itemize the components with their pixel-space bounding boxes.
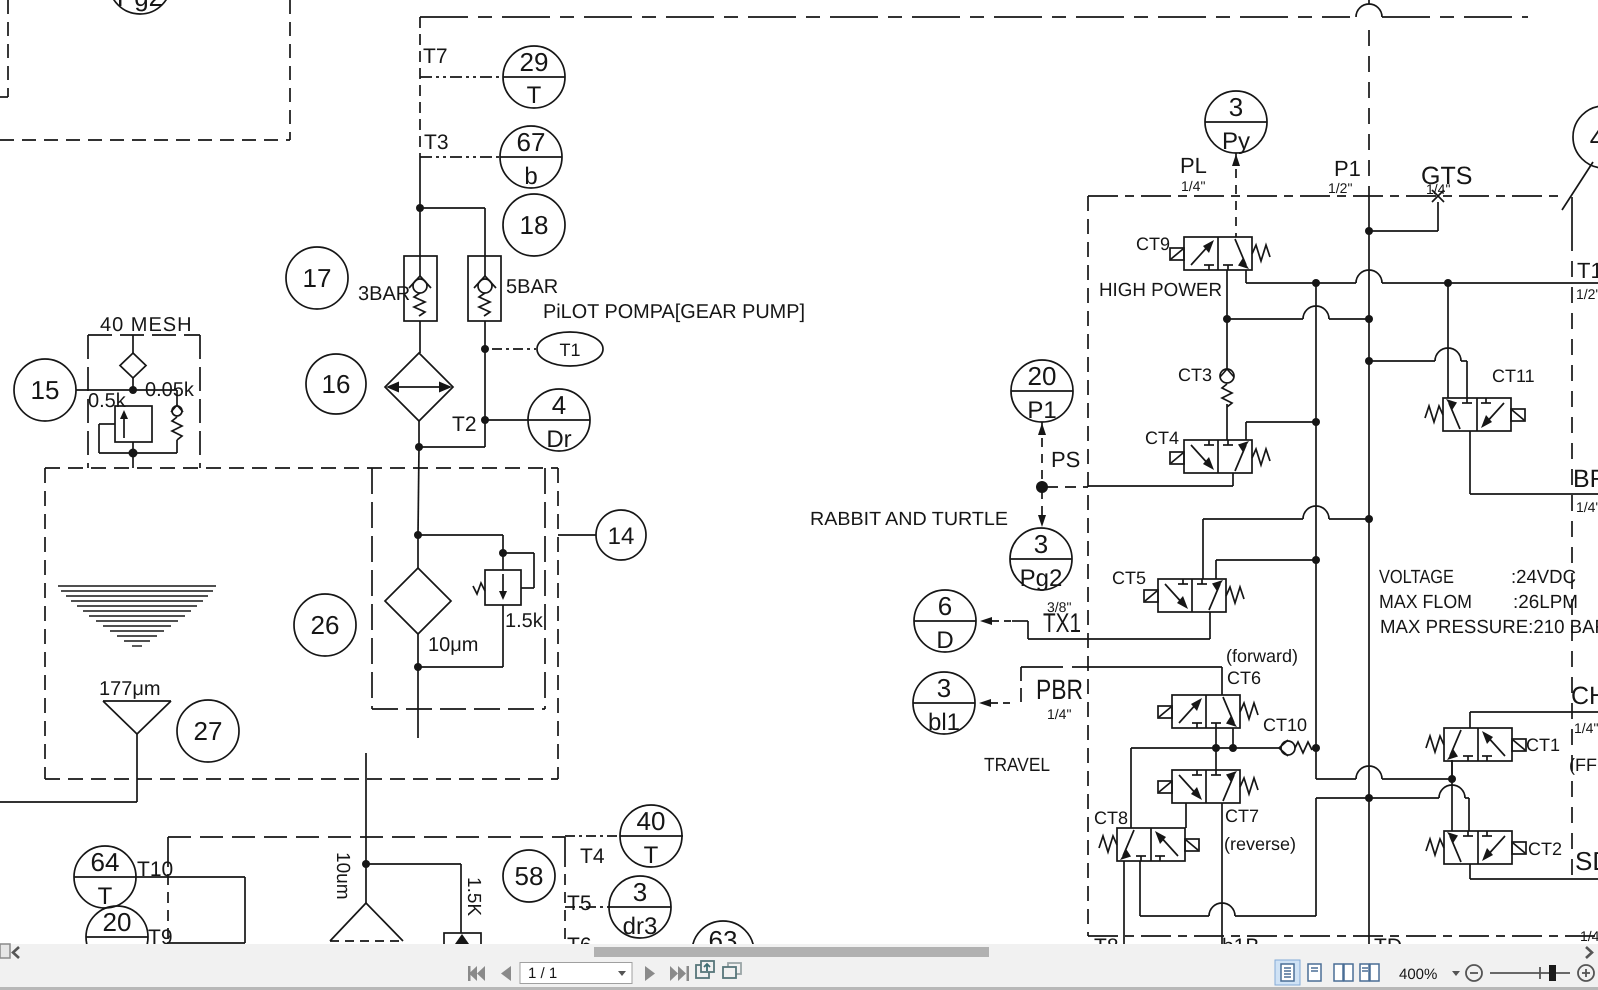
svg-text:CT5: CT5 [1112, 568, 1146, 588]
svg-text:1/2": 1/2" [1576, 286, 1598, 302]
svg-text:Dr: Dr [546, 426, 571, 453]
svg-text:20: 20 [103, 907, 132, 937]
svg-text:D: D [936, 627, 953, 654]
svg-text:(reverse): (reverse) [1224, 834, 1296, 854]
svg-text:58: 58 [515, 861, 544, 891]
svg-text:CT3: CT3 [1178, 365, 1212, 385]
svg-text::26LPM: :26LPM [1513, 592, 1578, 613]
svg-text:3: 3 [633, 877, 647, 907]
svg-text::24VDC: :24VDC [1511, 567, 1576, 588]
svg-text:bl1: bl1 [928, 709, 960, 736]
svg-text:1/4": 1/4" [1047, 706, 1071, 722]
svg-text:RABBIT AND TURTLE: RABBIT AND TURTLE [810, 509, 1008, 530]
svg-text:1/4": 1/4" [1426, 181, 1450, 197]
svg-text:6: 6 [938, 591, 952, 621]
svg-text:b: b [524, 163, 537, 190]
svg-text:CT4: CT4 [1145, 428, 1179, 448]
svg-text:4: 4 [1590, 123, 1598, 153]
svg-text:T3: T3 [424, 131, 449, 154]
svg-text:1/4: 1/4 [1580, 928, 1598, 944]
svg-text:HIGH POWER: HIGH POWER [1099, 280, 1222, 301]
svg-text:14: 14 [608, 523, 635, 550]
svg-text:PL: PL [1180, 153, 1207, 178]
svg-text:T1: T1 [559, 340, 580, 360]
svg-text:1.5k: 1.5k [505, 610, 544, 632]
svg-text:TX1: TX1 [1043, 608, 1081, 638]
svg-text:20: 20 [1028, 361, 1057, 391]
svg-text:PiLOT POMPA[GEAR PUMP]: PiLOT POMPA[GEAR PUMP] [543, 301, 805, 323]
svg-text:3BAR: 3BAR [358, 283, 410, 305]
svg-text:T1: T1 [1577, 258, 1598, 283]
svg-text:1/2": 1/2" [1328, 180, 1352, 196]
svg-text:CT9: CT9 [1136, 234, 1170, 254]
svg-text:64: 64 [91, 847, 120, 877]
svg-text:dr3: dr3 [623, 913, 658, 940]
svg-text:40: 40 [637, 806, 666, 836]
svg-text:MAX PRESSURE:210 BAR: MAX PRESSURE:210 BAR [1380, 617, 1598, 638]
svg-text:T7: T7 [423, 45, 448, 68]
svg-text:400%: 400% [1399, 966, 1437, 983]
svg-text:PS: PS [1051, 447, 1080, 472]
svg-text:17: 17 [303, 263, 332, 293]
svg-text:40 MESH: 40 MESH [100, 314, 193, 336]
svg-text:27: 27 [194, 716, 223, 746]
svg-text:5BAR: 5BAR [506, 276, 558, 298]
svg-text:PBR: PBR [1036, 674, 1083, 705]
svg-text:29: 29 [520, 47, 549, 77]
svg-text:3: 3 [1034, 529, 1048, 559]
svg-text:TRAVEL: TRAVEL [984, 755, 1050, 776]
svg-text:CT8: CT8 [1094, 808, 1128, 828]
svg-text:T: T [527, 82, 542, 109]
svg-text:0.5k: 0.5k [88, 390, 127, 412]
svg-text:T2: T2 [452, 413, 477, 436]
svg-text:Pg2: Pg2 [1020, 565, 1063, 592]
svg-text:T: T [644, 842, 659, 869]
svg-text:VOLTAGE: VOLTAGE [1379, 567, 1454, 588]
svg-text:P1: P1 [1334, 156, 1361, 181]
svg-text:SD: SD [1575, 846, 1598, 876]
svg-text:BR: BR [1573, 465, 1598, 493]
svg-text:P1: P1 [1027, 397, 1056, 424]
svg-text:1 / 1: 1 / 1 [528, 965, 557, 982]
svg-text:3: 3 [937, 673, 951, 703]
svg-text:4: 4 [552, 390, 566, 420]
svg-text:Py: Py [1222, 128, 1250, 155]
svg-text:18: 18 [520, 210, 549, 240]
svg-text:10μm: 10μm [428, 634, 478, 656]
svg-text:CT11: CT11 [1492, 366, 1535, 386]
svg-text:CT10: CT10 [1263, 715, 1307, 735]
svg-text:T5: T5 [567, 892, 592, 915]
svg-text:67: 67 [517, 127, 546, 157]
svg-text:15: 15 [31, 375, 60, 405]
svg-text:CH: CH [1571, 682, 1598, 710]
svg-text:1.5K: 1.5K [463, 877, 484, 916]
svg-text:CT6: CT6 [1227, 668, 1261, 688]
svg-text:177μm: 177μm [99, 678, 161, 700]
svg-text:CT1: CT1 [1526, 735, 1560, 755]
svg-text:CT7: CT7 [1225, 806, 1259, 826]
svg-text:26: 26 [311, 610, 340, 640]
svg-text:16: 16 [322, 369, 351, 399]
svg-text:CT2: CT2 [1528, 839, 1562, 859]
svg-text:(forward): (forward) [1226, 646, 1298, 666]
svg-text:1/4": 1/4" [1181, 178, 1205, 194]
svg-text:1/4": 1/4" [1574, 720, 1598, 736]
svg-text:1/4": 1/4" [1576, 499, 1598, 515]
svg-text:3: 3 [1229, 92, 1243, 122]
svg-text:10um: 10um [332, 852, 353, 900]
svg-text:T4: T4 [580, 845, 605, 868]
svg-text:(FF: (FF [1569, 755, 1597, 775]
svg-text:Pg2: Pg2 [117, 0, 163, 12]
svg-text:MAX FLOM: MAX FLOM [1379, 592, 1472, 613]
